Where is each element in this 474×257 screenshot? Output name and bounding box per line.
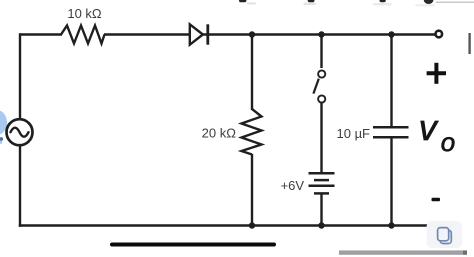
wire capacitor lower [390,138,392,225]
wire top (segment C) [203,33,435,35]
resistor R1 [61,26,105,44]
cropped text remnant 4 [424,0,434,4]
AC source V1 [7,119,33,145]
wire branch R2 upper [251,35,253,111]
battery B1 [309,173,335,193]
wire top (segment A) [20,33,62,35]
cropped text remnant 2 [308,0,315,2]
wire top (segment B) [104,33,190,35]
wire switch upper [320,35,322,69]
wire left rail lower [19,145,21,227]
wire left rail upper [19,33,21,119]
text cursor [468,33,470,54]
junction node bottom 3 [388,222,394,228]
junction node top 3 [388,31,394,37]
annotation blue tail [0,141,2,144]
copy button background [427,221,463,248]
wire capacitor upper [390,35,392,127]
cropped underline remnant [436,2,474,4]
scrollbar [339,250,467,254]
svg-text:10 kΩ: 10 kΩ [67,6,102,21]
label minus polarity [432,198,441,202]
copy icon front sheet [438,228,449,241]
redaction line [112,243,274,247]
junction node top 2 [318,31,324,37]
faint smudge 1 [247,2,256,4]
annotation blue blob [0,110,7,135]
cropped text remnant 3 [380,0,386,2]
wire switch to battery [320,103,322,173]
faint smudge 4 [415,4,435,6]
resistor R2 [242,109,262,155]
junction node bottom 1 [249,222,255,228]
svg-text:o: o [441,127,455,157]
svg-text:10 µF: 10 µF [337,126,371,141]
svg-text:+6V: +6V [281,178,305,193]
label vo [419,107,455,157]
svg-text:20 kΩ: 20 kΩ [202,126,237,141]
switch S1 [313,70,325,102]
diode D1 [190,24,208,44]
cropped text remnant 1 [239,0,246,2]
output terminal [436,31,443,38]
capacitor C1 [373,127,409,137]
annotation dark blue streak [0,137,3,141]
junction node top 1 [249,31,255,37]
wire branch R2 lower [251,154,253,226]
faint smudge 3 [373,3,392,5]
wire battery lower [320,193,322,225]
junction node bottom 2 [318,222,324,228]
wire bottom [19,224,428,226]
svg-text:v: v [419,107,439,148]
copy icon back sheet [440,230,451,243]
faint smudge 2 [303,3,316,5]
label plus polarity [427,63,446,84]
